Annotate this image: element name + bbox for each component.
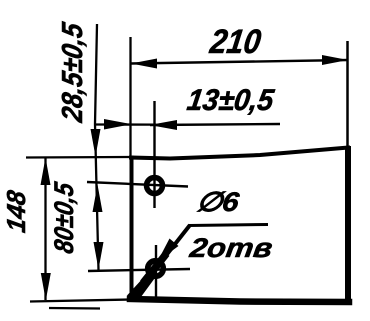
- extension line 210 left: [129, 37, 131, 157]
- extension line top-left (148 top): [26, 156, 131, 159]
- svg-text:80±0,5: 80±0,5: [48, 179, 79, 255]
- dimension 148 line: [41, 158, 51, 301]
- stray scan line below bottom: [49, 307, 100, 310]
- svg-text:28,5±0,5: 28,5±0,5: [57, 20, 89, 125]
- hole 1 circle: [147, 178, 163, 194]
- leader corner wedge: [127, 271, 156, 302]
- plate top edge: [131, 148, 348, 159]
- hole 2 circle: [148, 261, 164, 277]
- dimension line 28.5/80 vertical: [91, 24, 104, 270]
- dimension 210 line: [131, 55, 348, 69]
- hole 1 centerline vertical: [153, 101, 155, 208]
- dimension 210 label: [207, 23, 263, 61]
- plate right edge: [345, 146, 351, 303]
- extension line bottom-left (148 bottom): [30, 300, 131, 302]
- label 2 holes: [187, 232, 274, 263]
- svg-text:∅6: ∅6: [195, 186, 242, 217]
- svg-text:148: 148: [1, 188, 31, 235]
- hole 2 centerline vertical: [155, 245, 157, 297]
- dimension 80 label (rotated): [48, 179, 79, 255]
- leader diagonal line: [133, 225, 190, 298]
- dimension 148 label (rotated): [1, 188, 31, 235]
- extension line 210 right: [346, 41, 349, 148]
- dimension 28.5 label (rotated): [57, 20, 89, 125]
- leader shelf line: [189, 225, 268, 226]
- plate bottom edge: [130, 299, 349, 302]
- hole 2 centerline horizontal: [88, 269, 190, 271]
- leader arrowhead: [158, 239, 179, 262]
- dimension 13 line left arrow: [95, 119, 156, 130]
- hole 1 centerline horizontal: [87, 182, 188, 187]
- dimension 13 line right arrow with tail: [150, 120, 281, 130]
- label diameter 6: [195, 186, 242, 217]
- dimension 13 label: [185, 84, 277, 117]
- svg-text:210: 210: [207, 23, 263, 61]
- plate left edge: [130, 156, 134, 301]
- svg-text:2отв: 2отв: [187, 232, 274, 263]
- svg-text:13±0,5: 13±0,5: [185, 84, 277, 117]
